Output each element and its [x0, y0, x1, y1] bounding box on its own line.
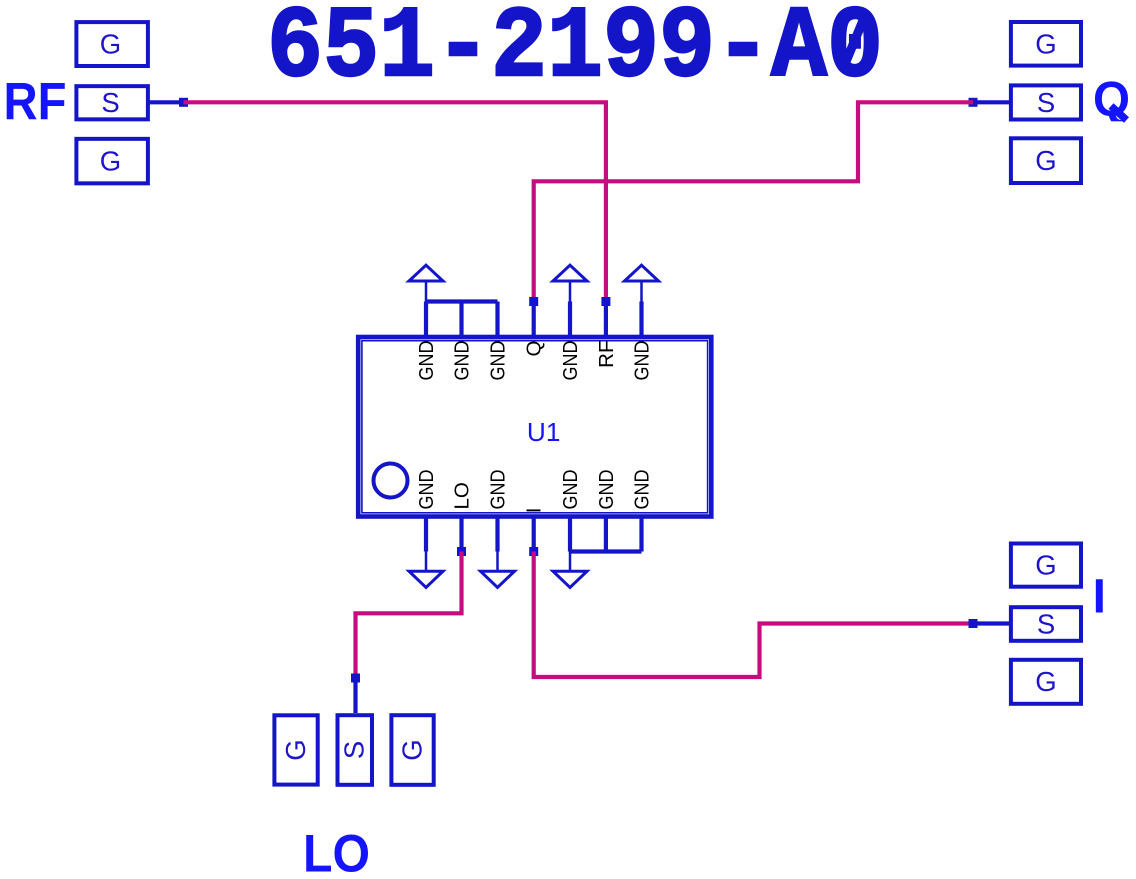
power arrow above pin 7 stem [640, 283, 643, 304]
ground arrow below pin 1 stem [425, 552, 428, 571]
net I wire [534, 552, 973, 678]
RF pad G bottom [76, 139, 147, 184]
pin GND bottom 7 [639, 517, 643, 552]
LO pad G left [274, 715, 317, 784]
title 651-2199-A0 [267, 0, 883, 106]
svg-text:GND: GND [631, 341, 654, 381]
svg-text:U1: U1 [527, 417, 561, 447]
svg-text:G: G [100, 146, 121, 177]
power arrow above pin 1 triangle [409, 265, 443, 281]
power arrow above pin 5 stem [569, 283, 572, 304]
ground arrow below pin 1 triangle [409, 571, 443, 587]
svg-text:LO: LO [451, 482, 474, 509]
svg-text:GND: GND [415, 470, 438, 510]
svg-text:GND: GND [487, 470, 510, 510]
wire Q pad stub [977, 100, 1009, 104]
wire GND bus bottom [570, 549, 642, 553]
junction square pin I [529, 547, 538, 556]
pin RF top 6 [604, 302, 608, 338]
Q pad G top [1011, 22, 1081, 66]
pin I bottom 4 [532, 517, 536, 552]
I pad S [1011, 607, 1081, 641]
svg-text:S: S [101, 87, 119, 118]
svg-text:Q: Q [523, 341, 546, 357]
pin GND top 7 [639, 302, 643, 338]
net RF wire [184, 102, 606, 301]
pin GND bottom 5 [568, 517, 572, 552]
svg-text:G: G [280, 739, 311, 760]
power arrow above pin 5 triangle [553, 265, 587, 281]
RF pad S [76, 86, 147, 119]
svg-text:GND: GND [415, 341, 438, 381]
wire RF pad stub [150, 100, 181, 104]
junction square RF pad [179, 98, 188, 107]
IC U1 pin-1 circle [374, 464, 408, 498]
svg-text:GND: GND [559, 341, 582, 381]
pin GND top 3 [495, 302, 499, 338]
Q pad G bottom [1011, 138, 1081, 183]
LO pad G right [391, 715, 433, 785]
svg-text:GND: GND [595, 470, 618, 510]
net Q wire [534, 102, 973, 301]
pin LO bottom 2 [459, 517, 463, 552]
junction square Q pad [969, 98, 978, 107]
svg-text:G: G [1035, 666, 1056, 697]
svg-text:RF: RF [4, 73, 67, 132]
svg-text:S: S [1037, 608, 1055, 639]
ground arrow below pin 5 stem [569, 552, 572, 571]
power arrow above pin 7 triangle [625, 265, 659, 281]
svg-text:G: G [1035, 28, 1056, 59]
junction square LO pad [351, 674, 360, 683]
svg-text:RF: RF [595, 341, 618, 368]
junction square I pad [969, 619, 978, 628]
pin GND bottom 1 [424, 517, 428, 552]
ground arrow below pin 3 stem [496, 552, 499, 571]
svg-text:LO: LO [303, 825, 370, 879]
pin Q top 4 [532, 302, 536, 338]
svg-text:G: G [100, 29, 121, 60]
svg-text:S: S [339, 741, 370, 759]
net LO wire [356, 552, 462, 679]
junction square pin RF [601, 297, 610, 306]
svg-text:GND: GND [559, 470, 582, 510]
junction square pin LO [457, 547, 466, 556]
junction square pin Q [529, 297, 538, 306]
pin GND bottom 3 [495, 517, 499, 552]
LO pad S [338, 715, 373, 785]
svg-text:I: I [523, 507, 546, 513]
svg-text:651-2199-A0: 651-2199-A0 [267, 0, 883, 106]
wire GND bus top [426, 299, 498, 303]
IC U1 inner border [362, 341, 708, 513]
I pad G bottom [1011, 660, 1081, 704]
svg-text:GND: GND [487, 341, 510, 381]
wire LO pad stub [353, 678, 357, 713]
svg-text:GND: GND [631, 470, 654, 510]
Q pad S [1011, 85, 1081, 119]
pin GND top 5 [568, 302, 572, 338]
pin GND top 1 [424, 302, 428, 338]
I pad G top [1011, 544, 1081, 587]
IC U1 outer body [358, 337, 711, 517]
RF pad G top [76, 22, 147, 66]
svg-text:G: G [1035, 549, 1056, 580]
pin GND bottom 6 [604, 517, 608, 552]
svg-text:G: G [397, 739, 428, 760]
svg-text:I: I [1093, 571, 1106, 624]
label Q tail trim [1090, 121, 1136, 128]
svg-text:G: G [1035, 145, 1056, 176]
ground arrow below pin 3 triangle [481, 571, 515, 587]
svg-text:S: S [1037, 87, 1055, 118]
svg-text:GND: GND [451, 341, 474, 381]
wire I pad stub [977, 621, 1009, 625]
power arrow above pin 1 stem [425, 283, 428, 302]
pin GND top 2 [459, 302, 463, 338]
ground arrow below pin 5 triangle [553, 571, 587, 587]
